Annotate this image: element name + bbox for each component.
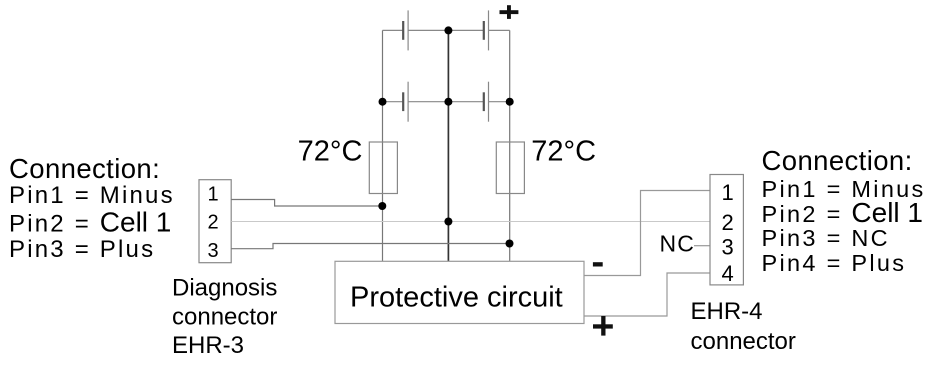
- svg-text:3: 3: [722, 235, 734, 260]
- battery cell B2 short plate (minus): [483, 21, 485, 40]
- battery cell B2 long plate (plus): [488, 10, 490, 50]
- wire left pin3 to right vertical: [231, 244, 509, 249]
- svg-text:1: 1: [722, 180, 734, 205]
- svg-text:2: 2: [722, 210, 734, 235]
- junction node pin1 wire: [378, 202, 386, 210]
- wire middle vertical: [447, 30, 449, 261]
- junction node pin3 wire on right vertical: [506, 240, 514, 248]
- svg-text:Pin3 = Plus: Pin3 = Plus: [9, 236, 155, 263]
- svg-text:connector: connector: [172, 303, 277, 330]
- wire left vertical: [382, 30, 384, 261]
- svg-text:NC: NC: [660, 231, 696, 257]
- junction node cell line on middle vertical: [444, 218, 452, 226]
- protective circuit box U1: [335, 261, 584, 323]
- svg-text:3: 3: [208, 240, 219, 262]
- svg-text:72°C: 72°C: [298, 136, 363, 168]
- svg-text:EHR-4: EHR-4: [691, 298, 763, 325]
- wire second row mid segment: [408, 101, 484, 103]
- battery cell B1 long plate (plus): [407, 10, 409, 50]
- svg-text:Pin2 = Cell 1: Pin2 = Cell 1: [9, 206, 171, 237]
- wire cell-1 sense line (faint): [231, 221, 710, 223]
- wire NC stub to right pin3: [694, 245, 710, 247]
- svg-text:Pin3 = NC: Pin3 = NC: [762, 225, 890, 251]
- label EHR-4 connector: [691, 298, 796, 355]
- junction node row2 right: [506, 98, 514, 106]
- right connection legend: [762, 145, 926, 276]
- label diagnosis connector EHR-3: [172, 275, 277, 359]
- battery cell B4 long plate (plus): [488, 82, 490, 122]
- left connection legend: [9, 153, 175, 263]
- thermal fuse F2 72C: [496, 142, 524, 194]
- junction node row2 left: [379, 98, 387, 106]
- plus symbol protective circuit output: [593, 316, 613, 336]
- wire plus terminal to right pin4: [584, 273, 710, 316]
- svg-text:connector: connector: [691, 328, 796, 355]
- wire top row right segment: [489, 29, 510, 31]
- svg-text:EHR-3: EHR-3: [172, 332, 244, 359]
- wire minus terminal to right pin1: [584, 191, 710, 276]
- battery cell B3 short plate (minus): [402, 92, 404, 111]
- junction node top center: [444, 26, 452, 34]
- wire top row left segment: [383, 29, 404, 31]
- svg-text:Connection:: Connection:: [762, 145, 913, 176]
- minus symbol: [593, 262, 603, 266]
- svg-text:2: 2: [208, 211, 219, 233]
- plus symbol battery positive terminal: [500, 5, 519, 19]
- svg-text:72°C: 72°C: [531, 136, 596, 168]
- svg-text:Pin1 = Minus: Pin1 = Minus: [9, 182, 175, 209]
- right connector EHR-4 box: [710, 175, 743, 285]
- wire left pin1 to left vertical: [231, 200, 382, 207]
- wire second row left segment: [383, 101, 404, 103]
- battery cell B4 short plate (minus): [483, 92, 485, 111]
- thermal fuse F1 72C: [369, 142, 397, 194]
- junction node row2 center: [444, 98, 452, 106]
- battery cell B1 short plate (minus): [402, 21, 404, 40]
- left connector EHR-3 box: [199, 180, 231, 263]
- svg-text:Diagnosis: Diagnosis: [172, 275, 277, 302]
- svg-text:Pin2 = Cell 1: Pin2 = Cell 1: [762, 197, 924, 228]
- svg-text:Pin4 = Plus: Pin4 = Plus: [762, 250, 907, 276]
- wire second row right segment: [489, 101, 510, 103]
- svg-text:1: 1: [208, 183, 219, 205]
- svg-text:Protective circuit: Protective circuit: [350, 282, 563, 314]
- battery cell B3 long plate (plus): [407, 82, 409, 122]
- wire right vertical: [509, 30, 511, 261]
- svg-text:Connection:: Connection:: [9, 153, 160, 184]
- wire top row mid segment: [408, 29, 484, 31]
- svg-text:4: 4: [722, 261, 734, 286]
